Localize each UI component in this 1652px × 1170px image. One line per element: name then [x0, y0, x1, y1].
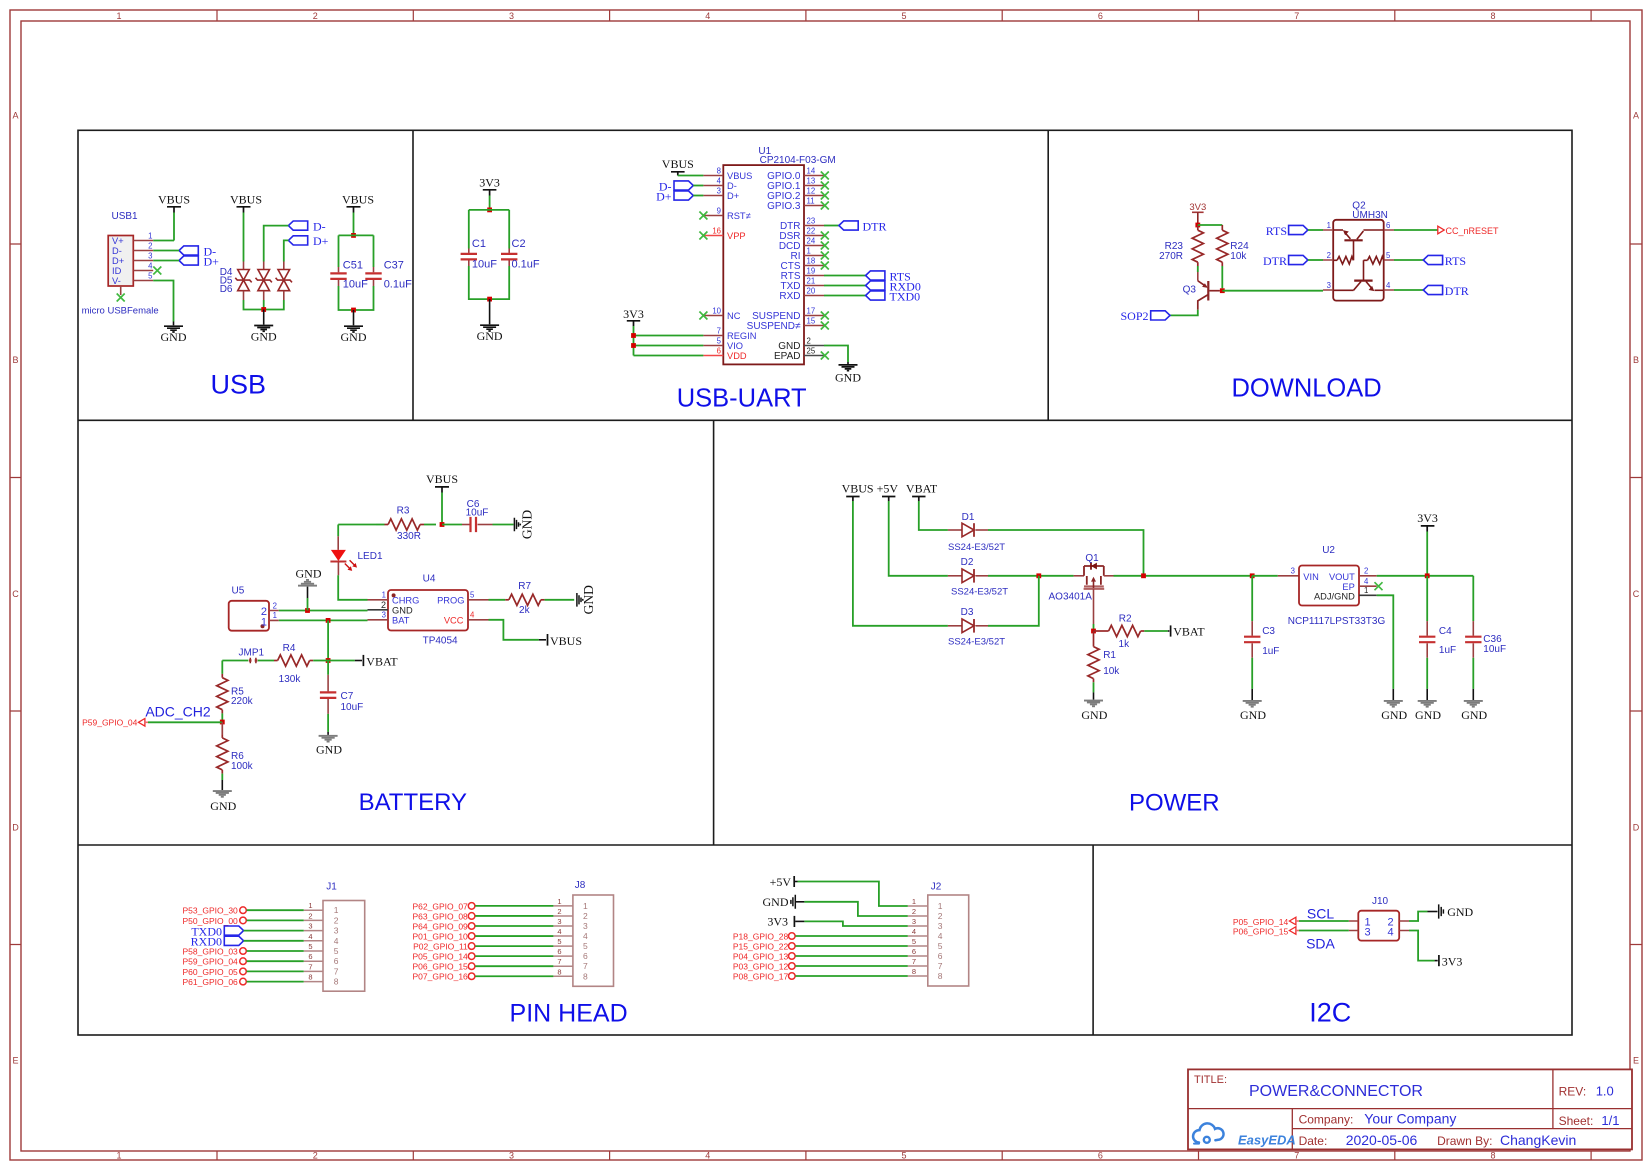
ground GND (R6) [210, 780, 236, 813]
svg-text:2: 2 [1327, 251, 1331, 260]
svg-text:2k: 2k [519, 605, 531, 616]
svg-text:3: 3 [509, 11, 514, 21]
U2 pins numbers names [1291, 566, 1377, 601]
svg-text:6: 6 [334, 956, 339, 966]
USB1 pin numbers [148, 231, 153, 280]
svg-text:0.1uF: 0.1uF [384, 279, 412, 291]
wire 3V3 to J2 pin3 [804, 921, 907, 926]
regulator U2 NCP1117 body [1252, 545, 1385, 627]
svg-text:1: 1 [807, 246, 811, 255]
wire LED1 to U4 CHRG [338, 575, 367, 600]
svg-text:4: 4 [717, 176, 722, 185]
net port DTR right [1394, 284, 1469, 298]
svg-text:C7: C7 [341, 691, 354, 702]
svg-text:VIO: VIO [727, 341, 743, 351]
svg-text:REV:: REV: [1559, 1085, 1587, 1099]
wire RTS port to Q2 pin1 [1308, 229, 1323, 231]
power flag VBUS (TVS diodes) [230, 193, 262, 213]
svg-text:220k: 220k [231, 696, 254, 707]
svg-text:PROG: PROG [437, 595, 464, 605]
capacitor C1 [461, 238, 498, 271]
svg-text:GND: GND [1461, 708, 1487, 722]
svg-text:LED1: LED1 [358, 551, 383, 562]
svg-text:8: 8 [1490, 11, 1495, 21]
svg-text:D1: D1 [962, 512, 975, 523]
svg-text:DTR: DTR [1445, 284, 1469, 298]
svg-text:3: 3 [1365, 927, 1371, 939]
power flag VBUS (battery) [426, 472, 458, 493]
svg-text:0.1uF: 0.1uF [512, 259, 540, 271]
svg-text:U2: U2 [1322, 545, 1335, 556]
svg-text:2: 2 [807, 336, 811, 345]
svg-text:13: 13 [807, 176, 816, 185]
svg-text:J8: J8 [575, 880, 586, 891]
svg-text:RST≠: RST≠ [727, 211, 751, 221]
svg-text:P06_GPIO_15: P06_GPIO_15 [413, 962, 469, 972]
svg-text:P06_GPIO_15: P06_GPIO_15 [1233, 926, 1289, 936]
ground GND above U5 [296, 567, 322, 611]
svg-text:2: 2 [273, 601, 277, 610]
svg-text:10uF: 10uF [472, 259, 497, 271]
svg-text:USB1: USB1 [112, 211, 139, 222]
svg-text:3: 3 [583, 921, 588, 931]
svg-text:2: 2 [912, 907, 916, 916]
svg-text:D+: D+ [656, 189, 672, 203]
svg-text:1: 1 [1364, 586, 1368, 595]
svg-text:GPIO.3: GPIO.3 [767, 201, 801, 212]
op-amp U1 CP2104-F03-GM body [723, 146, 835, 364]
svg-text:R4: R4 [283, 643, 296, 654]
svg-text:C51: C51 [343, 260, 363, 272]
svg-text:AO3401A: AO3401A [1049, 592, 1093, 603]
net port RTS left [1266, 224, 1308, 238]
svg-text:4: 4 [470, 611, 475, 620]
svg-text:VBUS: VBUS [230, 193, 262, 207]
ground GND (R7, rotated) [577, 585, 596, 614]
junction D2/D3 node [1036, 573, 1041, 578]
resistor R23 [1159, 225, 1203, 266]
wire USB1 D- to port [153, 250, 179, 252]
wire +5V to D2 [889, 501, 948, 576]
svg-text:VBUS: VBUS [662, 157, 694, 171]
wire DTR port to Q2 pin2 [1308, 259, 1323, 261]
svg-text:8: 8 [912, 967, 916, 976]
svg-text:6: 6 [583, 951, 588, 961]
svg-text:7: 7 [1294, 11, 1299, 21]
svg-text:2: 2 [557, 907, 561, 916]
svg-text:VBAT: VBAT [1173, 625, 1205, 639]
net port TXD0 (U1 pin20) [824, 289, 920, 303]
svg-text:5: 5 [470, 591, 475, 600]
junction 3V3/REGIN [631, 333, 636, 338]
svg-text:GND: GND [1081, 708, 1107, 722]
svg-text:+5V: +5V [770, 875, 792, 889]
svg-text:SUSPEND≠: SUSPEND≠ [747, 321, 801, 332]
svg-text:5: 5 [901, 11, 906, 21]
power flag VBUS (power) [842, 482, 874, 501]
wire VBUS to U1 pin8 [678, 175, 704, 177]
capacitor C51 [330, 260, 368, 291]
svg-text:P03_GPIO_12: P03_GPIO_12 [733, 961, 789, 971]
svg-text:B: B [1633, 355, 1639, 365]
junction 3V3/VIO [631, 343, 636, 348]
EasyEDA logo [1193, 1123, 1296, 1147]
ground GND (R1) [1081, 692, 1107, 722]
wire R24 to Q3 collector node [1221, 266, 1223, 288]
svg-text:7: 7 [912, 957, 916, 966]
connector J10 body [1349, 896, 1409, 941]
svg-text:RXD0: RXD0 [191, 935, 222, 949]
net label SCL [1307, 906, 1334, 922]
svg-text:3V3: 3V3 [1442, 954, 1463, 968]
svg-text:1/1: 1/1 [1601, 1113, 1619, 1128]
power flag VBAT (power) [906, 482, 938, 501]
svg-text:5: 5 [1386, 251, 1391, 260]
section title DOWNLOAD [1232, 375, 1382, 403]
svg-text:GND: GND [210, 799, 236, 813]
svg-text:Drawn By:: Drawn By: [1437, 1134, 1492, 1148]
section dividing grid [78, 130, 1572, 1035]
svg-text:D-: D- [112, 246, 122, 256]
net port RXD0 (J1 pin4) [191, 935, 304, 949]
svg-text:Q3: Q3 [1183, 285, 1197, 296]
svg-text:3: 3 [148, 251, 152, 260]
svg-text:8: 8 [1490, 1151, 1495, 1161]
svg-text:7: 7 [334, 966, 339, 976]
svg-text:3: 3 [1291, 566, 1295, 575]
junction C3 node [1250, 573, 1255, 578]
svg-text:P07_GPIO_16: P07_GPIO_16 [413, 972, 469, 982]
section title BATTERY [359, 789, 467, 816]
net flag CC_nRESET [1394, 226, 1499, 236]
section title PIN HEAD [510, 999, 628, 1027]
ground GND (U1) [835, 365, 861, 385]
svg-text:C: C [1633, 589, 1640, 599]
svg-text:1: 1 [116, 1151, 121, 1161]
svg-text:GND: GND [1240, 708, 1266, 722]
power flag 3V3 (power) [1417, 511, 1438, 532]
svg-text:USB-UART: USB-UART [677, 384, 807, 412]
svg-text:7: 7 [1294, 1151, 1299, 1161]
svg-text:VBAT: VBAT [366, 654, 398, 668]
svg-text:2: 2 [313, 11, 318, 21]
ground GND (TVS) [251, 310, 277, 344]
jumper JMP1 [222, 647, 264, 663]
junction C1/C2 top rail [487, 208, 492, 213]
net port RTS right [1394, 254, 1466, 268]
svg-text:C4: C4 [1439, 626, 1452, 637]
svg-text:100k: 100k [231, 761, 254, 772]
Q2 internal transistor b [1333, 260, 1384, 291]
resistor R6 [217, 722, 254, 780]
wire ADC node to P59 flag [148, 721, 222, 723]
section title I2C [1309, 998, 1351, 1028]
ground flag GND (J2) [763, 895, 805, 909]
svg-text:10k: 10k [1103, 666, 1120, 677]
wire 3V3 to C1/C2 rail [489, 196, 491, 210]
svg-text:6: 6 [308, 952, 312, 961]
junction GND drop on U5 pin2 wire [305, 608, 310, 613]
capacitor C6 [442, 499, 493, 532]
svg-text:DTR: DTR [863, 219, 887, 233]
resistor R5 [217, 661, 254, 723]
wire U5 pin1 to U4 BAT [279, 619, 368, 621]
svg-text:TP4054: TP4054 [423, 636, 458, 647]
svg-text:P64_GPIO_09: P64_GPIO_09 [413, 921, 469, 931]
ground GND (C4) [1415, 658, 1441, 722]
svg-text:4: 4 [938, 931, 943, 941]
net port D- (USB1) [179, 244, 216, 258]
svg-text:5: 5 [557, 937, 561, 946]
svg-text:4: 4 [705, 1151, 710, 1161]
svg-text:7: 7 [583, 961, 588, 971]
svg-text:15: 15 [807, 316, 816, 325]
svg-text:2: 2 [334, 915, 339, 925]
svg-text:P02_GPIO_11: P02_GPIO_11 [413, 942, 468, 952]
capacitor C36 [1465, 576, 1506, 658]
svg-text:6: 6 [557, 947, 561, 956]
svg-text:V+: V+ [112, 236, 124, 246]
wire D+ port to U1 pin3 [693, 195, 703, 197]
svg-text:RXD: RXD [779, 291, 800, 302]
capacitor C4 [1419, 576, 1456, 658]
svg-text:5: 5 [938, 941, 943, 951]
svg-text:GND: GND [1447, 905, 1473, 919]
svg-text:1: 1 [557, 897, 561, 906]
wire U5 pin2 to U4 GND [279, 610, 368, 612]
ground GND (C3) [1240, 658, 1266, 722]
svg-text:6: 6 [717, 346, 721, 355]
svg-text:A: A [12, 111, 18, 121]
svg-text:R7: R7 [518, 581, 531, 592]
svg-text:270R: 270R [1159, 251, 1183, 262]
junction TVS ground node [261, 307, 266, 312]
svg-text:GND: GND [1381, 708, 1407, 722]
net label SDA [1306, 936, 1335, 952]
svg-text:21: 21 [807, 276, 816, 285]
wire Q3 collector to Q2 pin3 [1222, 290, 1323, 292]
J1 GPIO net flags and wires [183, 906, 304, 987]
wire R3 left to LED1 [338, 524, 376, 526]
svg-text:10uF: 10uF [466, 508, 489, 519]
svg-text:VBUS: VBUS [727, 171, 752, 181]
svg-text:8: 8 [717, 166, 721, 175]
wire C1/C2 top rail [469, 210, 509, 249]
svg-text:+5V: +5V [877, 482, 899, 496]
svg-text:7: 7 [938, 961, 943, 971]
connector J1 body and pins [304, 882, 365, 992]
ground GND (USB1) [161, 326, 187, 344]
svg-text:4: 4 [557, 927, 561, 936]
svg-text:16: 16 [712, 226, 721, 235]
svg-text:3V3: 3V3 [623, 307, 644, 321]
no-connect X on USB1 pin 4 (ID) [153, 267, 161, 275]
U4 pins numbers names [368, 591, 489, 626]
svg-text:GND: GND [763, 895, 789, 909]
wire U1 GND pin to ground [824, 346, 848, 365]
Q2 internal base resistor b [1368, 257, 1384, 265]
svg-text:1: 1 [148, 231, 152, 240]
Q2 pins and numbers [1323, 221, 1394, 290]
svg-text:GND: GND [392, 606, 413, 616]
svg-text:U4: U4 [423, 574, 436, 585]
ground GND (C7) [316, 714, 342, 757]
net flag VBAT (R2) [1168, 625, 1205, 639]
svg-text:U5: U5 [232, 586, 245, 597]
svg-text:12: 12 [807, 186, 816, 195]
title block TITLE text [1194, 1074, 1423, 1100]
svg-text:10: 10 [712, 306, 721, 315]
svg-text:3: 3 [382, 611, 386, 620]
net port D+ (USB1) [179, 254, 219, 268]
title block Company [1299, 1111, 1457, 1127]
svg-text:SS24-E3/52T: SS24-E3/52T [948, 636, 1005, 647]
svg-text:J1: J1 [326, 882, 337, 893]
svg-text:3: 3 [509, 1151, 514, 1161]
svg-text:Company:: Company: [1299, 1113, 1354, 1127]
capacitor C3 [1244, 576, 1279, 658]
svg-text:4: 4 [148, 261, 153, 270]
svg-text:1.0: 1.0 [1596, 1084, 1614, 1099]
wire +5V to J2 pin1 [798, 882, 908, 907]
net port D- (TVS) [288, 219, 325, 233]
svg-text:A: A [1633, 111, 1639, 121]
svg-text:SDA: SDA [1306, 936, 1335, 952]
svg-text:GND: GND [835, 371, 861, 385]
junction 3V3/R23/R24 [1195, 223, 1200, 228]
svg-text:CC_nRESET: CC_nRESET [1446, 226, 1500, 236]
power flag 3V3 (C1/C2) [479, 176, 500, 196]
svg-text:SCL: SCL [1307, 906, 1334, 922]
svg-text:5: 5 [901, 1151, 906, 1161]
charger U4 TP4054 body [388, 574, 468, 647]
svg-text:3: 3 [717, 186, 721, 195]
net flag P06_GPIO_15 [1233, 926, 1299, 936]
svg-text:1: 1 [273, 611, 277, 620]
svg-text:3V3: 3V3 [767, 914, 788, 928]
svg-text:19: 19 [807, 266, 816, 275]
svg-text:3V3: 3V3 [1417, 511, 1438, 525]
svg-text:1: 1 [261, 616, 267, 628]
Q2 internal base resistor a [1333, 257, 1353, 265]
wire VBAT to D1 [919, 501, 948, 530]
svg-text:P60_GPIO_05: P60_GPIO_05 [183, 967, 239, 977]
svg-text:4: 4 [1388, 927, 1394, 939]
svg-text:4: 4 [308, 932, 312, 941]
svg-text:10uF: 10uF [341, 702, 364, 713]
svg-text:GND: GND [1415, 708, 1441, 722]
svg-text:GND: GND [161, 330, 187, 344]
svg-text:P59_GPIO_04: P59_GPIO_04 [82, 718, 138, 728]
svg-text:2020-05-06: 2020-05-06 [1346, 1132, 1418, 1148]
svg-text:J2: J2 [931, 882, 942, 893]
svg-text:P04_GPIO_13: P04_GPIO_13 [733, 951, 789, 961]
svg-text:4: 4 [583, 931, 588, 941]
svg-text:1: 1 [308, 901, 312, 910]
svg-text:VBUS: VBUS [426, 472, 458, 486]
svg-text:1: 1 [938, 901, 943, 911]
svg-text:E: E [12, 1056, 18, 1066]
svg-text:micro USBFemale: micro USBFemale [82, 306, 159, 317]
svg-text:6: 6 [1098, 11, 1103, 21]
title block Date and Drawn By [1299, 1132, 1577, 1148]
svg-text:9: 9 [717, 206, 721, 215]
wire 3V3 to REGIN VIO VDD [634, 326, 704, 356]
svg-text:330R: 330R [397, 531, 421, 542]
wire D2 to Q1 [988, 575, 1074, 577]
junction Q3 collector node [1220, 288, 1225, 293]
svg-text:P18_GPIO_28: P18_GPIO_28 [733, 931, 789, 941]
junction D1 node [1141, 573, 1146, 578]
svg-text:3: 3 [938, 921, 943, 931]
wire Q1 to C3 node [1114, 575, 1253, 577]
net label ADC_CH2 [145, 704, 211, 720]
ground GND (C6, rotated) [493, 510, 535, 539]
svg-text:C2: C2 [512, 238, 526, 250]
power flag 3V3 (U1) [623, 307, 644, 326]
wire VBUS to D4 [243, 213, 245, 270]
svg-text:D+: D+ [112, 256, 124, 266]
svg-text:VDD: VDD [727, 351, 747, 361]
svg-text:4: 4 [1364, 577, 1369, 586]
wire USB1 V+ to VBUS [153, 213, 174, 241]
net port DTR out (U1 pin23) [824, 219, 887, 233]
resistor R1 [1088, 631, 1120, 692]
LED LED1 [330, 525, 383, 576]
svg-text:VBAT: VBAT [906, 482, 938, 496]
svg-text:5: 5 [334, 946, 339, 956]
svg-text:RTS: RTS [1445, 254, 1466, 268]
svg-text:20: 20 [807, 286, 816, 295]
power flag VBUS (C51/C37) [342, 193, 374, 213]
svg-text:R2: R2 [1119, 614, 1132, 625]
svg-text:8: 8 [557, 967, 561, 976]
wire J10 pin2 to GND [1409, 912, 1438, 922]
svg-text:1uF: 1uF [1439, 645, 1456, 656]
ground GND (I2C, rotated) [1439, 904, 1474, 919]
net port D- (U1) [659, 179, 693, 193]
svg-text:11: 11 [807, 196, 815, 205]
svg-text:VBUS: VBUS [158, 193, 190, 207]
no-connect X on USB1 shield pin [117, 294, 125, 302]
svg-text:3V3: 3V3 [1189, 202, 1206, 213]
svg-text:VIN: VIN [1303, 572, 1319, 582]
svg-text:POWER: POWER [1129, 790, 1220, 817]
junction BAT wire [326, 618, 331, 623]
USB1 pin names [112, 236, 124, 286]
wire 3V3 to R24 [1198, 224, 1223, 226]
net port SOP2 [1120, 309, 1170, 323]
svg-text:4: 4 [1386, 281, 1391, 290]
power flag +5V (power) [877, 482, 899, 501]
svg-text:VPP: VPP [727, 231, 746, 241]
resistor R4 [258, 643, 328, 685]
svg-text:D: D [12, 823, 19, 833]
svg-text:B: B [12, 355, 18, 365]
section title USB [211, 369, 267, 399]
svg-text:P62_GPIO_07: P62_GPIO_07 [413, 901, 469, 911]
svg-text:10k: 10k [1230, 251, 1247, 262]
svg-text:3: 3 [912, 917, 916, 926]
connector J2 body and pins [908, 882, 969, 987]
svg-text:D3: D3 [961, 607, 974, 618]
svg-text:1: 1 [334, 905, 339, 915]
power flag 3V3 (download) [1189, 202, 1206, 225]
svg-text:Your Company: Your Company [1364, 1111, 1456, 1127]
svg-text:3: 3 [308, 922, 312, 931]
svg-text:UMH3N: UMH3N [1352, 210, 1388, 221]
capacitor C7 [320, 661, 363, 714]
